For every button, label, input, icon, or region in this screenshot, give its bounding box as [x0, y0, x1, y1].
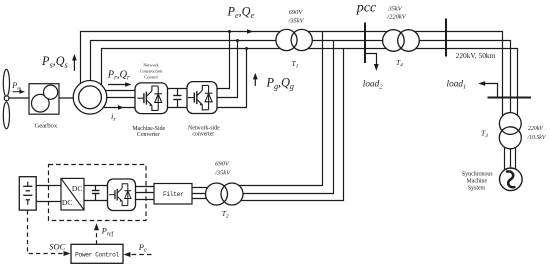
P_ref dashed arrow: [96, 231, 98, 245]
storage converter box U3: [108, 179, 136, 211]
transformer T1: [276, 29, 312, 50]
svg-text:System: System: [468, 186, 486, 192]
220kV bus bar: [445, 19, 447, 57]
load_2 arrow: [365, 54, 377, 65]
svg-text:Network: Network: [143, 63, 159, 68]
transformer T3: [499, 113, 521, 149]
wire: battery to DC/DC bottom: [36, 201, 61, 203]
DC/DC converter box: [61, 178, 84, 210]
svg-text:SOC: SOC: [49, 242, 65, 252]
gearbox box: [29, 84, 59, 115]
IGBT icon U2: [188, 85, 213, 109]
transformer T2: [206, 183, 244, 205]
svg-text:/220kV: /220kV: [386, 14, 406, 21]
svg-text:220kV: 220kV: [528, 126, 544, 132]
wire: DC/DC to storage converter rails: [84, 185, 108, 187]
svg-text:Ps,Qs: Ps,Qs: [41, 54, 68, 70]
svg-text:Machine: Machine: [466, 179, 487, 185]
wire: T2 secondary phase b up to bus: [235, 41, 334, 194]
junction dot NSC phase b: [236, 39, 239, 42]
svg-text:Converter: Converter: [137, 132, 160, 138]
machine-side converter box U1: [135, 83, 168, 114]
battery box: [19, 177, 36, 210]
wire: rotor phase a generator to MSC: [100, 90, 136, 92]
svg-text:DC: DC: [72, 184, 83, 193]
junction dot NSC phase a: [228, 30, 231, 33]
wire: gearbox to generator: [59, 97, 81, 99]
svg-text:Pr,Qr: Pr,Qr: [107, 69, 130, 81]
svg-text:Construction: Construction: [140, 69, 163, 74]
battery symbol: [23, 182, 32, 205]
wire: rotor phase c generator to MSC: [100, 107, 136, 109]
wire: DC link bottom rail: [168, 107, 188, 109]
wire: NSC output phase b to bus: [217, 41, 238, 98]
svg-text:690V: 690V: [289, 9, 304, 16]
svg-text:690V: 690V: [215, 161, 230, 168]
IGBT icon U1: [137, 86, 162, 110]
capacitor C2 storage DC link: [95, 186, 97, 191]
T3 area bus bar: [488, 96, 532, 98]
filter box: [154, 184, 192, 205]
svg-text:220kV, 50km: 220kV, 50km: [456, 51, 496, 60]
wire: T2 secondary phase c up to bus: [235, 49, 344, 201]
svg-text:Synchronous: Synchronous: [462, 171, 493, 177]
svg-text:Power Control: Power Control: [75, 252, 119, 259]
power control box: [71, 244, 123, 263]
wire: NSC output phase a to bus: [217, 32, 230, 89]
junction dot NSC phase c: [245, 47, 248, 50]
svg-text:Control: Control: [144, 75, 158, 80]
wire: DC link top rail: [168, 88, 188, 90]
svg-text:Gearbox: Gearbox: [34, 123, 57, 130]
wind turbine blades: [3, 69, 9, 128]
load_1 arrow: [482, 84, 498, 98]
synchronous machine circle: [500, 168, 523, 191]
svg-text:Pe,Qe: Pe,Qe: [227, 4, 255, 20]
svg-text:35kV: 35kV: [387, 6, 402, 13]
svg-text:converter: converter: [192, 132, 214, 138]
P_e dashed arrow into power control: [131, 254, 152, 256]
transformer T4: [383, 30, 420, 52]
dashed energy storage box: [49, 165, 147, 221]
svg-text:Filter: Filter: [163, 191, 184, 198]
generator DFIG double circle: [73, 81, 107, 115]
IGBT icon U3: [109, 184, 131, 206]
wire: stator phase b bus line: [91, 41, 511, 119]
wire: storage converter to filter: [136, 186, 155, 188]
wire: shaft hub to gearbox: [9, 97, 30, 99]
wire: stator phase a bus line (gen top to right grid, down to T3): [81, 32, 503, 119]
wire: filter to T2: [192, 187, 212, 189]
SOC dashed wire + arrow: [28, 210, 64, 253]
network-side converter box U2: [187, 82, 217, 114]
svg-text:Pg,Qg: Pg,Qg: [266, 75, 295, 91]
svg-text:DC: DC: [62, 198, 73, 207]
svg-text:pcc: pcc: [356, 0, 377, 15]
pcc bus bar: [364, 23, 366, 64]
capacitor C1 DC link: [177, 89, 179, 96]
wire: stator phase c bus line: [102, 49, 518, 119]
svg-text:/35kV: /35kV: [287, 17, 304, 24]
wire: NSC output phase c to bus: [217, 49, 247, 108]
wire: T3 secondary to synchronous machine: [504, 140, 506, 174]
wire: battery to DC/DC top: [36, 185, 61, 187]
wire: T2 secondary phase a up to bus: [235, 32, 323, 186]
wire: rotor phase b generator to MSC: [100, 97, 136, 99]
svg-text:/10.5kV: /10.5kV: [527, 135, 547, 141]
svg-text:/35kV: /35kV: [214, 170, 231, 177]
